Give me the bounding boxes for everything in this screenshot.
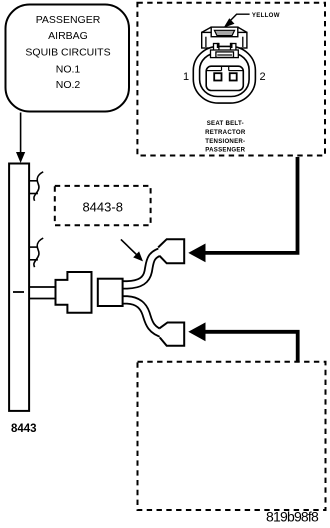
stub connector 1 on bar (29, 172, 44, 201)
terminal squares (214, 73, 221, 80)
thin arrow from 8443-8 box to wire (121, 239, 139, 256)
dashed box seat belt retractor tensioner (top right) (137, 3, 325, 156)
dashed box 8443-8 (55, 186, 151, 225)
stub connector 2 on bar (29, 238, 44, 267)
seat belt connector: body outer ring (193, 46, 255, 103)
svg-text:8443-8: 8443-8 (82, 200, 122, 215)
svg-text:SQUIB CIRCUITS: SQUIB CIRCUITS (25, 47, 110, 59)
svg-text:YELLOW: YELLOW (252, 12, 280, 19)
yellow callout arrow (229, 14, 250, 22)
connector terminal upper (158, 239, 184, 263)
rounded box passenger airbag squib circuits (6, 5, 130, 112)
svg-text:2: 2 (259, 71, 265, 83)
svg-text:RETRACTOR: RETRACTOR (205, 129, 246, 136)
yellow tab (214, 30, 234, 35)
svg-text:8443: 8443 (11, 423, 37, 435)
wire lower (123, 300, 164, 334)
svg-text:TENSIONER-: TENSIONER- (205, 138, 245, 145)
svg-text:PASSENGER: PASSENGER (205, 147, 245, 154)
cavity inner ledge (207, 70, 222, 72)
body inner ring (200, 53, 250, 97)
socket 8443-8 female (98, 279, 123, 306)
svg-text:819b98f8: 819b98f8 (266, 509, 319, 525)
plug 8443-8 male (56, 272, 92, 313)
latch (211, 43, 239, 58)
thick arrow to upper connector (205, 157, 298, 253)
svg-text:NO.2: NO.2 (56, 79, 81, 91)
svg-text:PASSENGER: PASSENGER (36, 14, 101, 26)
module bar 8443 (9, 164, 29, 411)
svg-text:1: 1 (183, 71, 189, 83)
wire strip from bar to plug (29, 286, 56, 288)
svg-text:NO.1: NO.1 (56, 64, 81, 76)
leader arrow from airbag box to 8443 bar (20, 113, 22, 154)
thick arrow to lower connector (205, 332, 298, 362)
wire upper (to seat belt tensioner) (123, 251, 164, 285)
tick on bar (13, 291, 24, 293)
seat belt connector: hood (202, 27, 247, 48)
connector terminal lower (160, 323, 185, 346)
dashed box bottom right (138, 362, 326, 510)
svg-text:AIRBAG: AIRBAG (48, 30, 88, 42)
svg-text:SEAT BELT-: SEAT BELT- (207, 120, 244, 127)
terminal cavity (206, 66, 243, 90)
